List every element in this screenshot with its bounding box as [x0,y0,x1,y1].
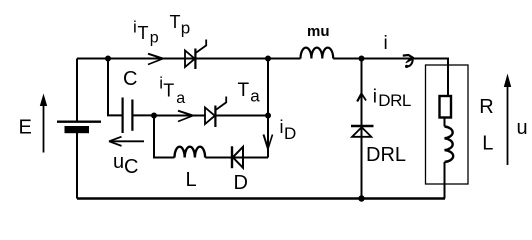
svg-text:p: p [150,30,159,47]
wire Ta branch [154,115,268,117]
svg-text:D: D [234,172,248,194]
svg-text:i: i [384,33,388,54]
svg-text:T: T [238,80,250,101]
wire capacitor branch [108,59,154,116]
label uC [113,151,138,178]
svg-text:DRL: DRL [366,144,406,166]
svg-text:C: C [123,68,137,90]
wire lower L-D branch [154,116,268,158]
thyristor Ta [205,97,226,128]
node junction Ta out / iD vertical [265,113,271,119]
arrow uC [109,137,144,146]
label C [123,68,137,90]
wire left branch (battery vertical) [76,59,78,199]
svg-text:D: D [284,124,296,143]
node junction top rail / C branch [105,56,111,62]
wire iD vertical [267,59,269,158]
arrow iTp current [148,54,163,65]
arrow iTa current [178,111,193,122]
node junction C / Ta / lower branch [151,113,157,119]
node junction DRL / bottom rail [358,195,364,201]
svg-text:a: a [250,87,260,106]
label iTa [159,74,185,108]
node junction top rail / DRL [359,56,365,62]
svg-text:i: i [280,117,284,137]
label mu [307,23,330,40]
load box [426,65,469,184]
arrow iD current [264,135,273,149]
svg-text:a: a [176,90,185,107]
wire top rail left segment [77,58,301,60]
thyristor Tp [185,40,206,70]
wire bottom rail [77,197,445,199]
svg-text:T: T [170,12,181,32]
wire between R and L in load [444,118,446,127]
label iTp [133,17,159,46]
inductor L (load) [445,127,454,163]
label DRL [366,144,406,166]
svg-text:p: p [181,18,190,37]
arrow u [504,74,511,166]
svg-text:u: u [517,117,528,139]
label R (load) [479,96,493,118]
svg-text:u: u [113,151,124,173]
svg-text:T: T [138,23,149,43]
svg-text:T: T [163,81,174,101]
voltage source E (battery) [57,122,101,134]
label u [517,117,528,139]
svg-text:C: C [124,156,138,178]
label iDRL [373,87,411,111]
wire load bottom [444,162,446,199]
svg-text:L: L [482,133,493,155]
diode D [232,146,243,168]
diode DRL [351,126,374,137]
label i [384,33,388,54]
label D [234,172,248,194]
label Tp [170,12,191,37]
label iD [280,117,297,143]
svg-text:i: i [133,17,137,36]
svg-text:L: L [186,169,197,191]
resistor R (load) [440,96,452,118]
wire top rail right segment [333,59,448,97]
arrow iDRL current [357,94,366,102]
label E [19,117,32,139]
label L [186,169,197,191]
svg-text:R: R [479,96,493,118]
arrow i current [403,55,414,68]
capacitor C [123,98,133,134]
svg-text:DRL: DRL [378,91,411,110]
arrow E [40,94,47,153]
label L (load) [482,133,493,155]
wire DRL vertical [361,59,363,199]
svg-text:i: i [373,87,377,108]
svg-text:mu: mu [307,23,330,40]
inductor mu [301,48,334,59]
node junction top rail / iD vertical [265,56,271,62]
inductor L (lower branch) [175,147,206,158]
svg-text:E: E [19,117,32,139]
label Ta [238,80,261,106]
